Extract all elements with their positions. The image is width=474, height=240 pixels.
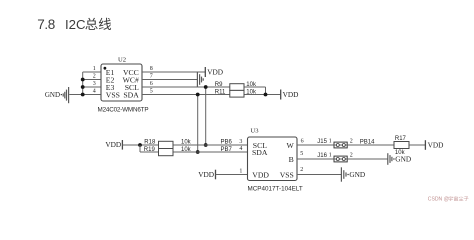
- resistor R18: [159, 141, 174, 148]
- wire GND to E-pin bus: [69, 94, 83, 96]
- svg-text:1: 1: [329, 138, 332, 144]
- pin numbers 3,4,1 (U3 left): [239, 139, 242, 174]
- svg-text:J15: J15: [317, 139, 327, 145]
- wire SCL pin6: [142, 86, 266, 88]
- U3 pin names: [252, 141, 295, 180]
- svg-text:PB7: PB7: [221, 147, 233, 153]
- svg-text:4: 4: [239, 146, 242, 152]
- svg-text:VSS: VSS: [106, 91, 120, 100]
- svg-text:R11: R11: [215, 90, 226, 96]
- svg-text:PB6: PB6: [221, 139, 233, 145]
- svg-text:7.8: 7.8: [37, 17, 55, 32]
- svg-text:10k: 10k: [246, 82, 257, 88]
- node PB7 tap: [196, 150, 200, 154]
- svg-text:R19: R19: [144, 147, 156, 153]
- wire B pin5 to J16: [297, 158, 334, 160]
- pin numbers 1-4 (U2 left): [93, 66, 96, 95]
- op chip U3 body: [248, 137, 298, 181]
- svg-text:1: 1: [93, 66, 96, 72]
- svg-text:3: 3: [93, 81, 96, 87]
- svg-text:2: 2: [350, 152, 353, 158]
- svg-text:U3: U3: [251, 128, 260, 135]
- resistor R17: [394, 142, 409, 149]
- wire PB6 row: [173, 144, 248, 146]
- svg-text:GND: GND: [45, 91, 60, 99]
- title chinese 总线: [85, 18, 111, 30]
- ground (left of U2): [63, 87, 68, 103]
- svg-text:J16: J16: [317, 153, 327, 159]
- svg-text:1: 1: [329, 152, 332, 158]
- svg-text:GND: GND: [395, 155, 411, 164]
- wire E1 stub: [83, 71, 101, 73]
- svg-text:R9: R9: [215, 82, 223, 88]
- svg-text:VDD: VDD: [207, 68, 223, 77]
- svg-text:B: B: [289, 155, 294, 164]
- svg-text:U2: U2: [118, 57, 126, 64]
- svg-text:7: 7: [150, 74, 153, 80]
- node VDD split: [138, 143, 142, 147]
- wire SDA bus down to PB7: [197, 95, 199, 153]
- svg-text:VDD: VDD: [198, 170, 214, 179]
- svg-text:VDD: VDD: [428, 140, 444, 149]
- svg-text:2: 2: [93, 74, 96, 80]
- svg-text:VDD: VDD: [105, 140, 121, 149]
- svg-text:10k: 10k: [246, 90, 257, 96]
- svg-text:PB14: PB14: [360, 140, 375, 146]
- svg-text:2: 2: [300, 167, 303, 173]
- wire E3 stub: [83, 86, 101, 88]
- node PB6 tap: [204, 143, 208, 147]
- wire PB7 row: [173, 151, 248, 153]
- wire E-pin bus vertical: [82, 72, 84, 95]
- power VDD (right of R9/R11): [280, 90, 282, 100]
- U2 pin names: [106, 68, 139, 100]
- wire VCC pin8 to VDD: [142, 71, 205, 73]
- wire down to R19 row: [139, 145, 141, 152]
- svg-text:R17: R17: [395, 136, 407, 142]
- wire J16 to ground: [347, 158, 387, 160]
- svg-text:6: 6: [150, 81, 153, 87]
- ground (J16): [388, 153, 392, 165]
- title 7.8 I2C bus: [37, 17, 86, 32]
- pin numbers 6,5,2 (U3 right): [300, 139, 303, 173]
- svg-text:2: 2: [350, 138, 353, 144]
- svg-text:SDA: SDA: [252, 148, 268, 157]
- power VDD (pin8): [204, 67, 206, 77]
- ground (WC# pin7): [197, 72, 203, 87]
- svg-text:GND: GND: [349, 170, 365, 179]
- wire R17 to VDD: [409, 144, 425, 146]
- svg-text:8: 8: [150, 66, 153, 72]
- svg-text:MCP4017T-104ELT: MCP4017T-104ELT: [248, 186, 303, 193]
- node join R9/R11: [264, 93, 268, 97]
- svg-text:R18: R18: [144, 139, 156, 145]
- pin-1 marker dot U2: [104, 67, 107, 70]
- wire R9 down to SDA row: [265, 87, 267, 95]
- wire VDD to R18: [122, 144, 158, 146]
- wire VDD to pin1: [216, 174, 248, 176]
- ground (U3 VSS): [341, 167, 346, 181]
- pin numbers 8-5 (U2 right): [150, 66, 153, 95]
- svg-text:3: 3: [239, 139, 242, 145]
- svg-text:4: 4: [93, 89, 96, 95]
- svg-text:W: W: [287, 141, 295, 150]
- svg-text:M24C02-WMN6TP: M24C02-WMN6TP: [98, 106, 149, 113]
- svg-text:SDA: SDA: [123, 91, 139, 100]
- svg-text:CSDN @: CSDN @: [428, 197, 449, 203]
- wire W pin6 to J15: [297, 144, 334, 146]
- resistor R11: [230, 90, 244, 97]
- wire J15 to R17: [347, 144, 394, 146]
- svg-text:VDD: VDD: [283, 90, 299, 99]
- node SCL tap: [204, 85, 208, 89]
- node SDA tap: [196, 93, 200, 97]
- svg-text:VSS: VSS: [280, 171, 294, 180]
- svg-text:1: 1: [239, 168, 242, 174]
- wire SCL bus down to PB6: [205, 87, 207, 145]
- svg-text:5: 5: [300, 151, 303, 157]
- wire SDA pin5: [142, 94, 281, 96]
- power VDD (right of R17): [424, 140, 426, 150]
- junction dots on bus: [81, 78, 85, 97]
- svg-text:10k: 10k: [181, 139, 192, 145]
- wire VSS pin2 to ground: [297, 174, 341, 176]
- op chip U2 body: [101, 64, 142, 101]
- wire WC# pin7 to ground: [142, 79, 197, 81]
- svg-text:I2C: I2C: [65, 17, 86, 32]
- svg-text:6: 6: [301, 139, 304, 145]
- svg-text:5: 5: [150, 89, 153, 95]
- wire VSS stub: [83, 94, 101, 96]
- wire E2 stub: [83, 79, 101, 81]
- svg-text:10k: 10k: [181, 147, 192, 153]
- resistor R19: [159, 149, 174, 156]
- resistor R9: [230, 84, 244, 91]
- svg-text:VDD: VDD: [252, 171, 269, 180]
